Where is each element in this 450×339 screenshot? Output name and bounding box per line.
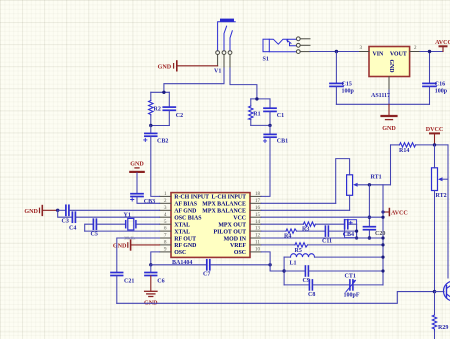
capacitor CB1 (263, 125, 288, 144)
svg-text:12: 12 (255, 234, 261, 239)
node OSC right (268, 263, 271, 266)
node hub/C9 row (282, 269, 285, 272)
U1 left pin names (174, 195, 209, 257)
svg-text:100p: 100p (435, 89, 448, 95)
resistor R14 (391, 143, 449, 154)
wire CB4 box right vertical (356, 224, 358, 238)
svg-text:PILOT OUT: PILOT OUT (214, 229, 247, 235)
wire U1 pin13 row (261, 230, 286, 232)
wire CB2 to U1 pin1 (151, 136, 160, 196)
svg-text:MPX OUT: MPX OUT (218, 223, 246, 229)
wire right edge vertical (447, 145, 449, 278)
wire U1 pin10 to OSC row (261, 252, 270, 265)
svg-text:R2: R2 (154, 107, 161, 113)
capacitor C20 (364, 185, 386, 238)
U2 pin 3 stub (359, 46, 370, 52)
svg-text:14: 14 (255, 220, 261, 225)
crystal Y1 (124, 213, 160, 241)
svg-text:CB3: CB3 (144, 199, 155, 205)
transistor Q1 (435, 281, 450, 301)
svg-text:100pF: 100pF (344, 293, 360, 299)
node L1 row at x383 (381, 256, 384, 259)
U1 left pin numbers (164, 192, 167, 253)
wire V1 tip to R2C2 (164, 68, 224, 92)
power GND at C3 (24, 206, 57, 216)
wire bottom rail (117, 292, 435, 304)
svg-text:VOUT: VOUT (390, 52, 407, 58)
svg-text:GND: GND (382, 126, 396, 132)
capacitor CB4 (343, 220, 357, 238)
svg-text:C15: C15 (342, 82, 352, 88)
svg-text:OSC: OSC (234, 250, 246, 256)
wire R2C2 bottom rail (151, 125, 170, 127)
svg-text:MOD IN: MOD IN (224, 236, 247, 242)
svg-text:RF GND: RF GND (174, 243, 196, 249)
svg-text:C3: C3 (62, 219, 69, 225)
S1 pin circles and stubs (296, 37, 310, 54)
wire U1 pin6 row (85, 230, 160, 232)
wire R2C2 top rail (151, 91, 170, 93)
node row12 join (355, 236, 358, 239)
node R1C1 feed (255, 97, 258, 100)
capacitor C5 (85, 219, 126, 237)
wire R1C1 top rail (251, 98, 270, 100)
capacitor C3 (58, 205, 160, 224)
capacitor CB2 (144, 126, 169, 145)
svg-text:R29: R29 (438, 325, 448, 331)
potentiometer RT1 (336, 159, 391, 211)
svg-text:3: 3 (360, 46, 363, 51)
svg-text:C2: C2 (176, 113, 183, 119)
wire U1 pin7 to C21 (117, 238, 160, 272)
node C6 top (149, 263, 152, 266)
capacitor C9 (284, 266, 383, 284)
svg-text:100p: 100p (342, 89, 355, 95)
svg-text:C1: C1 (277, 113, 284, 119)
wire V1 ring to R1C1 (230, 68, 257, 99)
wire RT1 bottom to U1 pin16 (261, 209, 349, 211)
node C9 row at x383 (381, 269, 384, 272)
svg-text:L1: L1 (290, 261, 297, 267)
wire OSC row with C7 (151, 264, 207, 266)
node CB2 top (149, 124, 152, 127)
svg-text:OSC BIAS: OSC BIAS (174, 216, 202, 222)
resistor R29 (432, 292, 448, 339)
svg-text:2: 2 (414, 46, 417, 51)
wire U1 pin15 VCC row (261, 216, 383, 218)
capacitor C4 (58, 210, 160, 231)
svg-text:GND: GND (158, 64, 172, 70)
svg-text:AF GND: AF GND (174, 209, 196, 215)
node Q1 base (433, 290, 436, 293)
svg-text:10: 10 (255, 248, 261, 253)
node rows13/14 join (355, 230, 358, 233)
U1 right pin names (202, 195, 246, 257)
U1 left pin stubs 1-9 (160, 196, 171, 252)
svg-text:RF OUT: RF OUT (174, 236, 196, 242)
svg-text:C5: C5 (91, 232, 98, 238)
U2 pin 2 stub (410, 46, 420, 52)
svg-text:R14: R14 (399, 148, 409, 154)
capacitor C11 (322, 226, 357, 244)
resistor R5 (295, 243, 384, 254)
svg-text:GND: GND (130, 162, 144, 168)
svg-text:GND: GND (113, 244, 127, 250)
svg-text:C7: C7 (203, 272, 210, 278)
earth ground below C6 (144, 276, 158, 307)
svg-text:15: 15 (255, 213, 261, 218)
power AVCC (mid) (383, 209, 408, 217)
svg-text:DVCC: DVCC (426, 127, 444, 133)
svg-text:AS1117: AS1117 (371, 93, 390, 99)
svg-text:RT2: RT2 (436, 193, 447, 199)
wire tank hub vertical (283, 257, 285, 285)
resistor R3 (302, 222, 344, 233)
resistor R2 (149, 92, 161, 125)
node C16 top (428, 50, 431, 53)
wire AVCC vertical x383 (382, 185, 384, 285)
U1 right pin stubs 18-10 (250, 196, 261, 252)
phone jack V1 (214, 19, 235, 75)
svg-text:S1: S1 (263, 57, 269, 63)
resistor R1 (249, 99, 261, 126)
wire U2 ground rail (336, 90, 429, 104)
svg-text:VCC: VCC (233, 216, 246, 222)
svg-text:VIN: VIN (373, 52, 385, 58)
capacitor C16 (423, 52, 448, 105)
svg-text:R5: R5 (295, 248, 302, 254)
svg-text:C16: C16 (435, 82, 445, 88)
trimmer capacitor CT1 (344, 274, 384, 299)
wire S1 to C15 to U2 VIN (310, 51, 359, 53)
U1 right pin numbers (255, 192, 261, 253)
svg-text:CB1: CB1 (277, 138, 288, 144)
V1 pin circles (216, 51, 232, 68)
capacitor C8 (284, 280, 349, 298)
svg-text:17: 17 (255, 199, 261, 204)
svg-text:13: 13 (255, 227, 261, 232)
power GND at V1 sleeve (158, 61, 218, 71)
svg-text:R-CH INPUT: R-CH INPUT (174, 195, 209, 201)
capacitor C7 (203, 260, 270, 278)
inductor L1 (284, 254, 383, 267)
node C3/C4 branch (56, 209, 59, 212)
capacitor C15 (330, 52, 355, 105)
potentiometer RT2 (432, 145, 449, 292)
node R2C2 feed (162, 91, 165, 94)
ground above CB3 (130, 162, 144, 172)
wire RT1 top to U1 pin17 (261, 202, 336, 204)
svg-text:L-CH INPUT: L-CH INPUT (211, 195, 246, 201)
svg-text:MPX BALANCE: MPX BALANCE (202, 209, 246, 215)
svg-text:C6: C6 (157, 279, 164, 285)
wire U1 pin12 MOD IN row (261, 237, 383, 239)
jack S1 (263, 39, 296, 52)
power AVCC (top right) (435, 40, 450, 52)
svg-text:XTAL: XTAL (174, 229, 190, 235)
capacitor CB3 (131, 173, 156, 205)
svg-text:AF BIAS: AF BIAS (174, 202, 198, 208)
svg-text:CB2: CB2 (157, 138, 168, 144)
svg-text:GND: GND (388, 59, 394, 72)
svg-text:C21: C21 (124, 279, 134, 285)
node AVCC tap (381, 210, 384, 213)
svg-text:MPX BALANCE: MPX BALANCE (202, 202, 246, 208)
op-amp U1 BA1404 body (171, 193, 250, 266)
ground below U2 (382, 104, 397, 132)
capacitor C2 (163, 92, 183, 125)
capacitor C21 (111, 273, 134, 304)
svg-text:OSC: OSC (174, 250, 186, 256)
node C15 top (335, 50, 338, 53)
svg-text:GND: GND (24, 209, 38, 215)
wire RT1 wiper up to R14 rail (390, 145, 392, 185)
svg-text:R1: R1 (253, 112, 260, 118)
node VCC row at x383 (381, 216, 384, 219)
svg-text:Y1: Y1 (124, 213, 131, 219)
svg-text:C20: C20 (375, 231, 385, 237)
svg-text:CB4: CB4 (343, 232, 354, 238)
svg-text:AVCC: AVCC (435, 40, 450, 46)
node C20 bottom / MODIN row (368, 236, 371, 239)
node row12 at x383 (381, 236, 384, 239)
svg-text:C8: C8 (308, 292, 315, 298)
wire U1 pin14 row (261, 223, 303, 225)
power DVCC (426, 127, 444, 145)
wire R1C1 bottom rail (251, 124, 270, 126)
svg-text:VREF: VREF (230, 243, 246, 249)
svg-text:18: 18 (255, 192, 261, 197)
svg-text:AVCC: AVCC (391, 211, 408, 217)
wire U1 pin9 to OSC row (151, 252, 160, 265)
svg-text:V1: V1 (214, 69, 221, 75)
wire CB1 to U1 pin18 (261, 137, 270, 196)
svg-text:11: 11 (255, 241, 260, 246)
power GND at U1 pin8 (113, 240, 160, 250)
svg-text:CT1: CT1 (345, 274, 356, 280)
wire U2 pin2 to AVCC corner (420, 48, 443, 52)
svg-text:RT1: RT1 (371, 175, 382, 181)
U2 pin 1 (GND) stub (388, 77, 390, 90)
node C20 top / VCC row (368, 216, 371, 219)
node wiper/x369 (368, 183, 371, 186)
wire CB3 to U1 pin2 (137, 197, 160, 204)
node row11 at x383 (381, 243, 384, 246)
wire OSC node jog to hub (270, 265, 284, 271)
svg-text:XTAL: XTAL (174, 223, 190, 229)
svg-text:16: 16 (255, 206, 261, 211)
wire U1 pin11 row (261, 244, 295, 246)
capacitor C1 (264, 99, 284, 126)
svg-text:C11: C11 (322, 238, 332, 244)
regulator U2 AS1117 body (369, 47, 410, 100)
node CB1 top (268, 124, 271, 127)
svg-text:C4: C4 (69, 226, 76, 232)
resistor R4 (284, 229, 325, 239)
capacitor C6 (145, 265, 165, 285)
node DVCC/R14 (433, 143, 436, 146)
